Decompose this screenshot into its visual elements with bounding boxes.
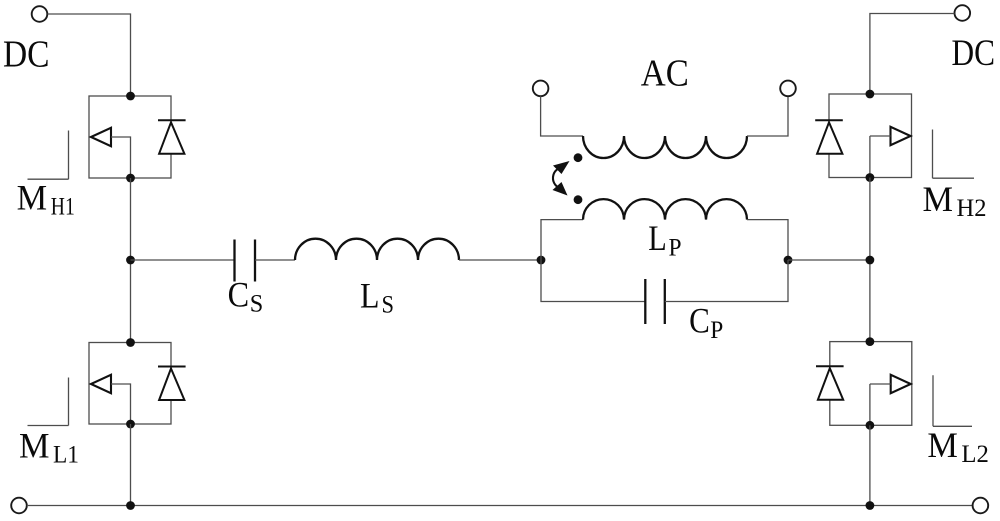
wire left leg bottom [130, 424, 132, 506]
node midpoint right leg [866, 256, 875, 265]
node bottom rail right [866, 501, 875, 510]
coupling arrow [553, 161, 570, 196]
terminal AC left [533, 81, 549, 97]
wire mid rail to Cs [131, 259, 235, 261]
node source M_L2 [866, 421, 875, 430]
wire left leg mid [130, 178, 132, 343]
svg-text:M: M [19, 426, 50, 466]
inductor LS [295, 239, 459, 260]
svg-text:C: C [689, 300, 710, 340]
svg-text:H1: H1 [51, 193, 75, 220]
node source M_L1 [126, 420, 135, 429]
svg-text:L: L [648, 218, 667, 258]
svg-text:L: L [360, 275, 380, 315]
node source M_H2 [866, 173, 875, 182]
transistor M_L1 [28, 343, 186, 426]
svg-text:M: M [927, 425, 958, 465]
M_L2 gate [933, 375, 972, 426]
node source M_H1 [126, 174, 135, 183]
M_H2 internal wire [870, 136, 891, 178]
node drain M_H2 [866, 90, 875, 99]
M_L2 source arrow [891, 375, 911, 393]
wire tank bottom right [665, 260, 788, 302]
M_H1 gate [28, 131, 69, 180]
node polarity dot AC winding [574, 153, 583, 162]
M_H2 gate [933, 130, 975, 179]
M_H1 body box [89, 96, 171, 178]
svg-text:M: M [923, 179, 954, 219]
terminal DC top-left [32, 6, 48, 22]
capacitor CP [645, 279, 665, 324]
wire AC right lead [747, 96, 788, 136]
wire top-left feed [47, 14, 130, 96]
node polarity dot LP winding [574, 195, 583, 204]
M_L2 body diode [816, 366, 844, 400]
M_H2 body diode [815, 120, 843, 153]
wire right leg mid [869, 178, 871, 342]
inductor LP [583, 199, 747, 220]
M_H2 body box [829, 94, 912, 178]
svg-text:P: P [710, 317, 723, 344]
wire tank left drop [541, 260, 645, 302]
svg-text:L1: L1 [53, 442, 79, 469]
M_L2 internal wire [870, 384, 891, 425]
wire Cs to Ls [255, 259, 295, 261]
node bottom rail left [126, 501, 135, 510]
node drain M_L1 [126, 338, 135, 347]
svg-text:P: P [669, 234, 682, 261]
wire AC left lead [541, 96, 583, 136]
M_L1 body diode [158, 367, 186, 401]
node tank right [784, 256, 793, 265]
svg-text:DC: DC [952, 33, 996, 74]
svg-text:AC: AC [641, 53, 689, 95]
transistor M_H2 [815, 94, 974, 178]
svg-text:M: M [17, 177, 47, 217]
M_L2 body box [830, 342, 912, 426]
node midpoint left leg [126, 256, 135, 265]
transistor M_H1 [28, 96, 186, 179]
wire bottom rail [27, 505, 973, 507]
M_H2 source arrow [891, 127, 911, 145]
wire mid rail right [788, 259, 870, 261]
M_H1 internal wire [111, 137, 131, 178]
M_L1 internal wire [111, 384, 131, 424]
svg-text:L2: L2 [961, 441, 989, 468]
M_L1 source arrow [91, 375, 111, 393]
svg-text:S: S [382, 292, 395, 319]
node tank left [537, 256, 546, 265]
M_H1 source arrow [91, 128, 111, 146]
svg-text:DC: DC [3, 33, 50, 75]
terminal DC top-right [955, 5, 971, 21]
terminal AC right [780, 81, 796, 97]
wire tank left riser [541, 220, 583, 260]
transistor M_L2 [816, 342, 972, 427]
svg-text:S: S [250, 291, 263, 318]
M_L1 body box [89, 343, 171, 425]
node drain M_H1 [126, 92, 135, 101]
terminal bottom-left [11, 498, 27, 514]
svg-text:H2: H2 [957, 195, 987, 222]
node drain M_L2 [866, 337, 875, 346]
inductor AC winding [583, 136, 747, 158]
wire right leg bottom [869, 425, 871, 505]
wire tank right riser [747, 220, 788, 260]
M_L1 gate [28, 378, 69, 426]
M_H1 body diode [158, 120, 186, 153]
terminal bottom-right [973, 498, 989, 514]
wire top-right feed [870, 14, 955, 95]
capacitor CS [235, 240, 256, 282]
svg-text:C: C [228, 275, 250, 315]
wire Ls to tank [459, 259, 541, 261]
